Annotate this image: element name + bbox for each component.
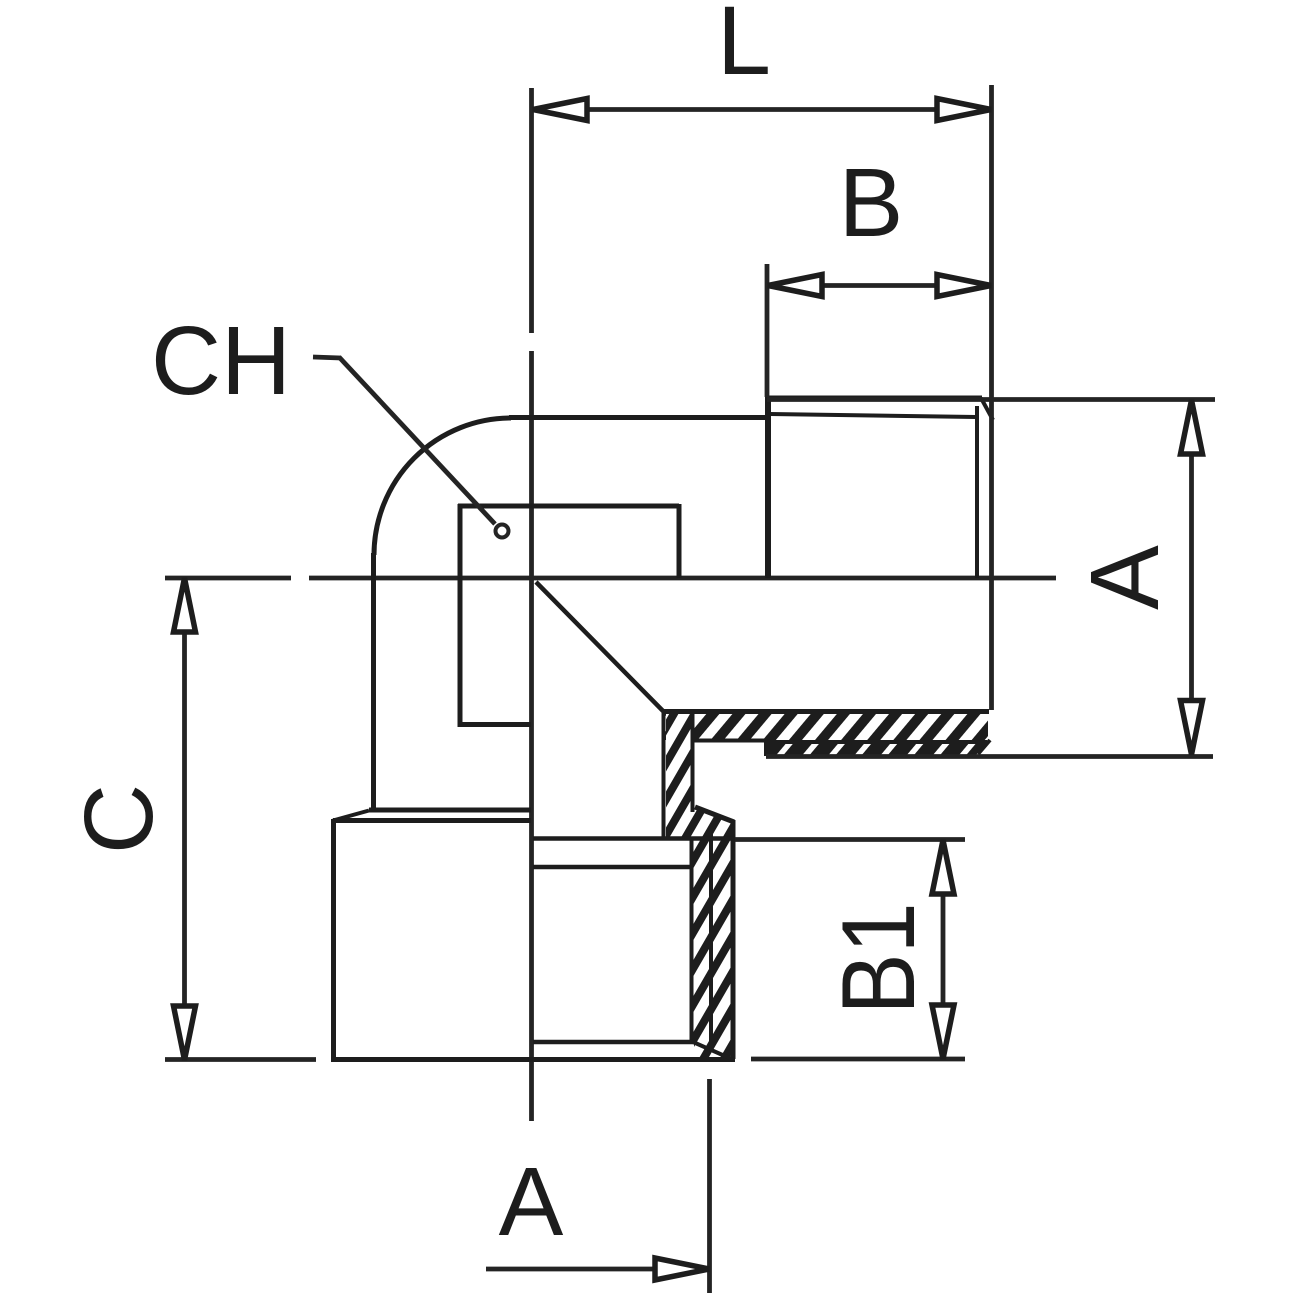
svg-text:C: C (64, 784, 173, 854)
svg-text:A: A (499, 1147, 564, 1256)
svg-text:L: L (717, 0, 771, 95)
svg-text:CH: CH (151, 306, 291, 415)
svg-text:B1: B1 (821, 903, 937, 1015)
svg-text:B: B (839, 148, 904, 257)
svg-text:A: A (1070, 545, 1179, 610)
